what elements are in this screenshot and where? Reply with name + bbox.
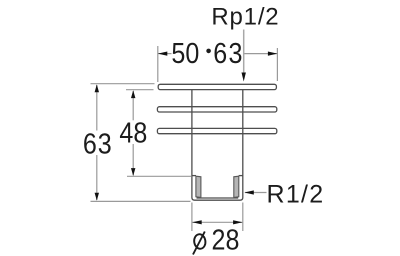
- svg-text:Rp1/2: Rp1/2: [211, 3, 279, 30]
- svg-text:63: 63: [213, 38, 244, 70]
- svg-text:63: 63: [83, 128, 113, 160]
- svg-text:28: 28: [212, 224, 240, 256]
- svg-text:R1/2: R1/2: [267, 181, 325, 209]
- svg-text:48: 48: [119, 117, 147, 149]
- svg-text:50: 50: [171, 38, 199, 70]
